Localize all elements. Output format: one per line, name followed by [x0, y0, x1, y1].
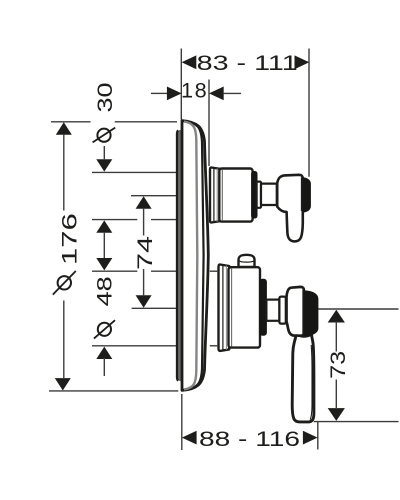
volume control end cap [260, 279, 266, 335]
thermostat sleeve end cap [252, 172, 257, 219]
dimension 83 - 111 [182, 50, 310, 75]
dimension 73 [306, 309, 399, 422]
svg-text:48: 48 [91, 276, 116, 306]
thermostat sleeve flange [210, 168, 220, 223]
svg-text:73: 73 [325, 351, 350, 379]
extension line lever tip x=318 [317, 422, 319, 450]
svg-text:30: 30 [92, 83, 117, 113]
volume control stem collar [279, 297, 285, 324]
svg-text:83 - 111: 83 - 111 [197, 50, 298, 75]
thermostat sleeve body [219, 169, 252, 222]
dimension Ø 30 [92, 83, 207, 260]
plate inner gray contour [184, 122, 197, 390]
lever handle hub [287, 287, 318, 337]
svg-text:88 - 116: 88 - 116 [199, 426, 300, 451]
dimension Ø 176 [49, 122, 178, 391]
escutcheon plate dome silhouette [182, 121, 208, 391]
plate inner black contour [185, 121, 204, 390]
svg-text:18: 18 [181, 78, 208, 103]
dimension 88 - 116 [182, 426, 318, 451]
volume control sleeve body [229, 267, 261, 347]
extension line sleeve face x=209 [208, 80, 210, 167]
thermostat stem bar [261, 184, 277, 205]
dimension 18 [151, 78, 241, 103]
extension line left (wall face) top [180, 49, 182, 120]
svg-text:176: 176 [57, 213, 82, 265]
escutcheon plate back slab [177, 123, 185, 388]
lever handle arm [292, 334, 314, 422]
thermostat stem collar [257, 182, 261, 208]
extension line left (wall face) bottom [181, 394, 183, 450]
extension line top handle tip x=309 [308, 49, 310, 177]
dimension 74 [131, 196, 207, 309]
volume control stem bar [266, 300, 279, 321]
volume control sleeve flange [219, 265, 230, 351]
dimension Ø 48 [91, 258, 217, 376]
volume control top knob [239, 255, 255, 267]
thermostat knob (small lever) [277, 175, 310, 242]
svg-text:74: 74 [132, 236, 157, 270]
